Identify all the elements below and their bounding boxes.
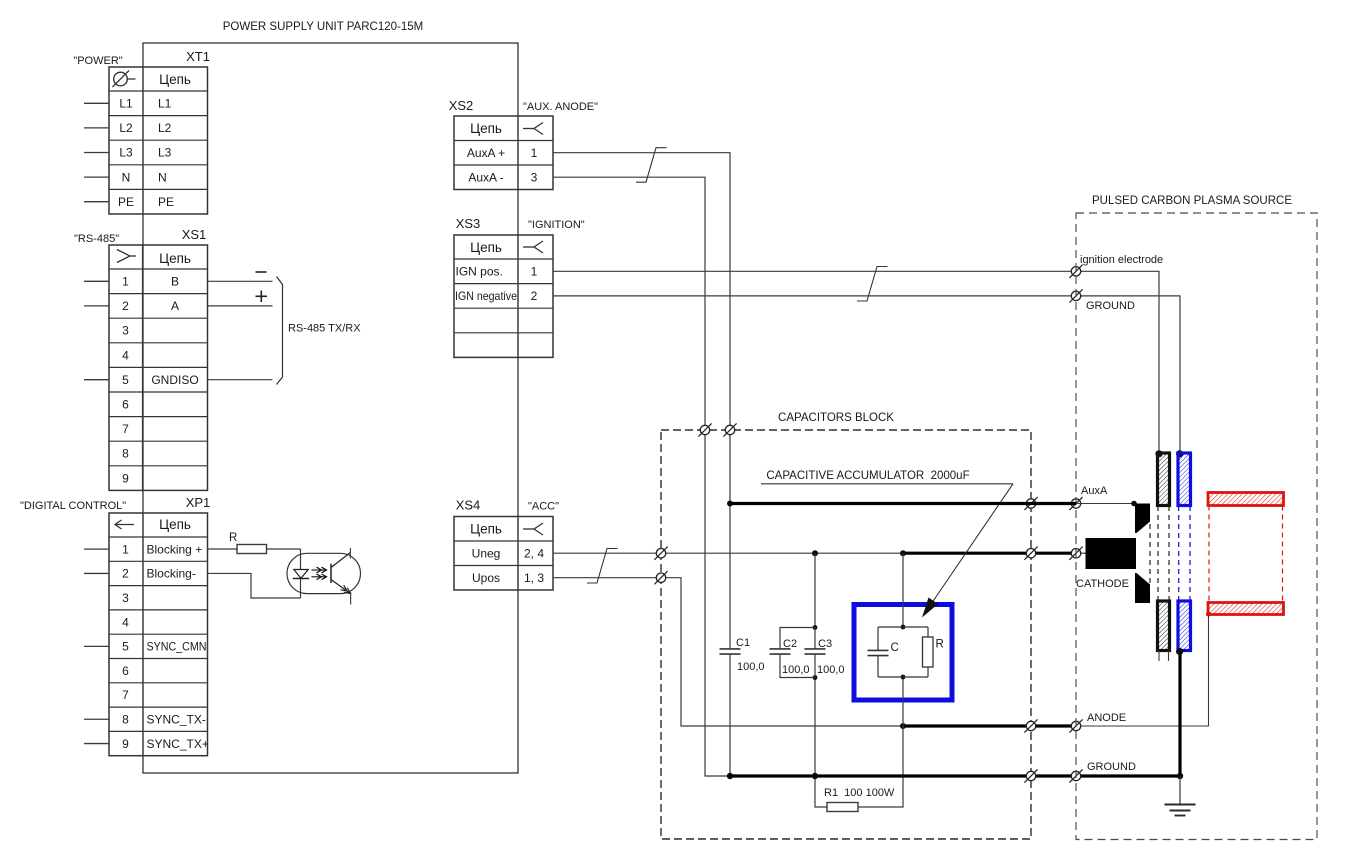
connector XS4	[454, 498, 553, 591]
svg-text:GROUND: GROUND	[1087, 761, 1136, 773]
svg-text:IGN negative: IGN negative	[455, 289, 517, 303]
svg-text:1: 1	[122, 542, 129, 556]
cable group marker XS4	[587, 549, 618, 584]
svg-text:C3: C3	[818, 638, 832, 650]
capacitor C (accumulator)	[868, 627, 899, 677]
wire XS4 Uneg (thin)	[553, 552, 903, 554]
wire anode to accelerating electrode	[1076, 612, 1211, 726]
wire lower blue electrode to ground bus (thick)	[1178, 653, 1181, 777]
svg-text:C1: C1	[736, 637, 750, 649]
svg-text:Цепь: Цепь	[470, 240, 502, 255]
RS-485 bracket	[277, 277, 283, 385]
ground electrode plate (blue, upper)	[1178, 453, 1191, 506]
aux anode wedge (upper)	[1135, 504, 1150, 534]
wire XS1.5 GNDISO	[208, 379, 273, 381]
svg-text:R: R	[936, 639, 944, 651]
svg-text:6: 6	[122, 398, 129, 412]
svg-text:9: 9	[122, 471, 129, 485]
svg-text:XS4: XS4	[456, 498, 481, 513]
svg-text:6: 6	[122, 664, 129, 678]
svg-text:Upos: Upos	[472, 571, 500, 585]
connector XS3	[454, 216, 553, 357]
svg-text:4: 4	[122, 615, 129, 629]
XP1 stub wires	[84, 549, 109, 743]
svg-text:POWER SUPPLY UNIT PARC120-15M: POWER SUPPLY UNIT PARC120-15M	[223, 21, 423, 33]
svg-text:CAPACITORS BLOCK: CAPACITORS BLOCK	[778, 412, 894, 424]
wire XS2.3 AuxA- feed	[553, 177, 729, 776]
svg-text:R1 100 100W: R1 100 100W	[824, 787, 895, 799]
electrode gap dashed lines (black)	[1158, 506, 1169, 601]
wire accumulator branch	[901, 553, 906, 726]
capacitive accumulator unit box (blue)	[854, 605, 952, 701]
pulsed carbon plasma source boundary (dashed)	[1076, 213, 1317, 840]
wire XS3.2 ignition ground	[553, 296, 1183, 458]
svg-text:100,0: 100,0	[782, 664, 810, 676]
accelerating electrode top bar (red)	[1208, 493, 1284, 506]
svg-text:2, 4: 2, 4	[524, 547, 544, 561]
accumulator inner top/bottom wires	[878, 627, 928, 677]
svg-text:L3: L3	[119, 146, 133, 160]
svg-text:"POWER": "POWER"	[73, 55, 122, 67]
svg-text:Uneg: Uneg	[472, 547, 501, 561]
svg-text:C: C	[891, 642, 899, 654]
svg-text:Цепь: Цепь	[159, 251, 191, 266]
wire C2C3 branch	[813, 553, 818, 776]
svg-text:8: 8	[122, 447, 129, 461]
resistor R (accumulator)	[923, 627, 944, 677]
svg-text:9: 9	[122, 737, 129, 751]
svg-text:"IGNITION": "IGNITION"	[528, 219, 585, 231]
connector XS1	[109, 227, 208, 490]
grommets on capacitors block right edge	[1024, 497, 1037, 783]
optocoupler U1	[287, 548, 361, 605]
svg-text:SYNC_TX+: SYNC_TX+	[147, 737, 209, 751]
wire XS2.1 AuxA+ feed	[553, 153, 730, 504]
svg-text:1: 1	[531, 146, 538, 160]
svg-text:8: 8	[122, 712, 129, 726]
svg-text:3: 3	[122, 591, 129, 605]
lower electrode lead stubs	[1159, 651, 1169, 662]
svg-text:AuxA -: AuxA -	[468, 171, 503, 185]
wire AuxA to wedge	[1076, 501, 1137, 507]
wire ground to earth symbol	[1179, 776, 1181, 805]
grommets on capacitors block left edge	[654, 547, 667, 585]
svg-text:"DIGITAL CONTROL": "DIGITAL CONTROL"	[20, 500, 126, 512]
svg-text:XP1: XP1	[186, 495, 211, 510]
svg-text:Цепь: Цепь	[470, 121, 502, 136]
wire cathode bus (thick)	[812, 550, 1086, 556]
leader label CAPACITIVE ACCUMULATOR 2000uF	[761, 470, 1013, 618]
svg-text:PE: PE	[158, 195, 174, 209]
connector XS2	[449, 98, 553, 190]
svg-text:100,0: 100,0	[737, 661, 765, 673]
svg-text:1: 1	[122, 275, 129, 289]
connector XP1	[109, 495, 210, 756]
svg-text:AuxA: AuxA	[1081, 485, 1108, 497]
svg-text:5: 5	[122, 640, 129, 654]
wire XS3.1 ignition electrode	[553, 271, 1163, 457]
svg-text:IGN pos.: IGN pos.	[456, 265, 503, 279]
svg-text:ignition electrode: ignition electrode	[1080, 254, 1163, 266]
connector XT1	[109, 49, 210, 214]
cathode wedge (lower)	[1135, 573, 1150, 603]
svg-text:GROUND: GROUND	[1086, 300, 1135, 312]
svg-text:2: 2	[531, 289, 538, 303]
svg-text:XS2: XS2	[449, 98, 474, 113]
lower electrode plate (hatched)	[1158, 601, 1170, 651]
lower electrode plate (blue)	[1176, 601, 1191, 655]
svg-text:RS-485 TX/RX: RS-485 TX/RX	[288, 323, 361, 335]
svg-text:C2: C2	[783, 638, 797, 650]
svg-text:SYNC_CMN: SYNC_CMN	[147, 640, 207, 654]
capacitors block boundary (dashed)	[661, 430, 1031, 839]
power supply unit boundary box	[143, 43, 518, 773]
wire XP1.2 to optocoupler	[208, 573, 301, 598]
svg-text:AuxA +: AuxA +	[467, 146, 505, 160]
svg-text:Цепь: Цепь	[470, 522, 502, 537]
wedge gap dashed line	[1149, 524, 1151, 584]
ground bus (thick)	[727, 773, 1183, 779]
svg-text:1, 3: 1, 3	[524, 571, 544, 585]
resistor R	[208, 532, 301, 554]
capacitor C1	[720, 501, 765, 777]
svg-text:L1: L1	[119, 97, 133, 111]
capacitor C2	[770, 628, 816, 678]
svg-text:PE: PE	[118, 195, 134, 209]
svg-text:Blocking-: Blocking-	[147, 567, 196, 581]
svg-text:2: 2	[122, 567, 129, 581]
svg-text:L1: L1	[158, 97, 172, 111]
electrode gap dashed lines (blue)	[1179, 506, 1190, 601]
svg-text:N: N	[158, 170, 167, 184]
svg-text:R: R	[229, 532, 237, 544]
earth ground symbol	[1165, 805, 1196, 816]
svg-text:CATHODE: CATHODE	[1076, 578, 1129, 590]
grommets on plasma source left edge	[1069, 265, 1082, 783]
svg-text:XS3: XS3	[456, 216, 481, 231]
capacitor C3	[805, 628, 845, 678]
cathode block	[1086, 538, 1137, 569]
grommets on capacitors block top edge	[698, 423, 736, 436]
svg-text:7: 7	[122, 422, 129, 436]
svg-text:"RS-485": "RS-485"	[74, 233, 119, 245]
svg-text:ANODE: ANODE	[1087, 712, 1126, 724]
svg-text:B: B	[171, 275, 179, 289]
svg-text:XS1: XS1	[182, 227, 207, 242]
ignition electrode plate (hatched, upper)	[1158, 453, 1170, 506]
svg-text:"AUX. ANODE": "AUX. ANODE"	[523, 101, 598, 113]
svg-text:Цепь: Цепь	[159, 517, 191, 532]
svg-text:2: 2	[122, 299, 129, 313]
wire XS1.2 A	[208, 305, 273, 307]
svg-text:L2: L2	[158, 121, 172, 135]
wire XS4 Upos (thin)	[553, 578, 903, 726]
XT1 input stub wires	[84, 103, 109, 201]
plus polarity mark	[256, 291, 268, 303]
svg-text:3: 3	[122, 324, 129, 338]
wire AuxA bus (thick)	[730, 502, 1076, 505]
svg-text:4: 4	[122, 348, 129, 362]
minus polarity mark	[256, 271, 267, 273]
accelerating electrode bottom bar (red)	[1208, 603, 1284, 615]
svg-text:1: 1	[531, 265, 538, 279]
svg-text:L3: L3	[158, 146, 172, 160]
svg-text:Цепь: Цепь	[159, 72, 191, 87]
svg-text:"ACC": "ACC"	[528, 501, 559, 513]
svg-text:A: A	[171, 299, 179, 313]
svg-text:100,0: 100,0	[817, 664, 845, 676]
svg-text:GNDISO: GNDISO	[151, 373, 198, 387]
svg-text:SYNC_TX-: SYNC_TX-	[147, 712, 206, 726]
cable group marker XS3	[857, 267, 888, 302]
svg-text:Blocking +: Blocking +	[147, 542, 203, 556]
cable group marker XS2	[636, 148, 667, 183]
wire XS1.1 B	[208, 280, 273, 282]
svg-text:7: 7	[122, 688, 129, 702]
XS1 stub wires	[84, 281, 109, 379]
svg-text:N: N	[122, 170, 131, 184]
resistor R1 100 100W	[815, 726, 903, 812]
accelerating electrode dashed sides (red)	[1209, 506, 1283, 603]
svg-text:5: 5	[122, 373, 129, 387]
svg-text:L2: L2	[119, 121, 133, 135]
svg-text:3: 3	[531, 171, 538, 185]
svg-text:XT1: XT1	[186, 49, 210, 64]
svg-text:CAPACITIVE ACCUMULATOR 2000uF: CAPACITIVE ACCUMULATOR 2000uF	[766, 470, 969, 482]
svg-text:PULSED CARBON PLASMA SOURCE: PULSED CARBON PLASMA SOURCE	[1092, 195, 1292, 207]
wire anode bus (thick)	[900, 723, 1076, 729]
